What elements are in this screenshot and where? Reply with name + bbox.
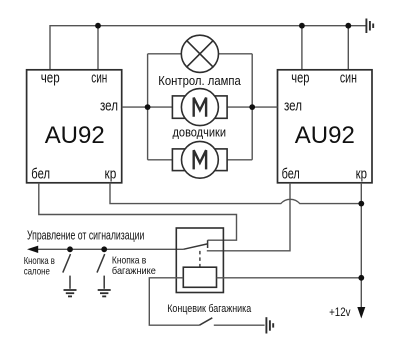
relay NO contact terminal bbox=[207, 240, 209, 248]
relay contact blade bbox=[183, 244, 207, 249]
switch SB1 Кнопка в салоне bbox=[63, 254, 71, 289]
node: coil / +12v rail junction bbox=[358, 275, 364, 281]
svg-text:син: син bbox=[340, 70, 357, 86]
svg-text:+12v: +12v bbox=[329, 307, 351, 319]
wire right vertical bus (lamp+motors) bbox=[251, 54, 253, 160]
switch SB3 Концевик багажника blade bbox=[199, 318, 212, 325]
svg-text:багажнике: багажнике bbox=[112, 265, 156, 277]
wire top bus (ground net) bbox=[50, 26, 366, 70]
ground (under SB1) bbox=[64, 290, 77, 296]
svg-text:AU92: AU92 bbox=[45, 122, 105, 149]
wire зел-left to lamp/motor bus bbox=[122, 106, 173, 108]
motor M2 (доводчик нижний) bbox=[172, 141, 227, 178]
arrow +12v bbox=[357, 307, 365, 319]
node: button 2 junction bbox=[101, 246, 107, 252]
wire lamp right lead bbox=[219, 53, 253, 55]
ground (trunk switch, right) bbox=[266, 317, 273, 333]
wire +12v rail (кр-right down) bbox=[360, 183, 362, 308]
relay actuation dashed link bbox=[199, 251, 201, 267]
svg-text:кр: кр bbox=[356, 167, 367, 183]
node: junction чер-right on top bus bbox=[299, 23, 305, 29]
svg-text:Управление от сигнализации: Управление от сигнализации bbox=[27, 228, 144, 243]
switch SB2 Кнопка в багажнике bbox=[97, 254, 105, 289]
svg-text:кр: кр bbox=[105, 167, 117, 183]
svg-text:бел: бел bbox=[31, 167, 50, 183]
node: кр-left / +12v rail junction bbox=[358, 201, 364, 207]
wire lamp left lead bbox=[148, 53, 182, 55]
node: junction син-right on top bus bbox=[345, 23, 351, 29]
wire чер-right pin to top bus bbox=[301, 26, 303, 70]
svg-text:доводчики: доводчики bbox=[173, 124, 227, 139]
svg-text:салоне: салоне bbox=[24, 265, 50, 277]
svg-text:чер: чер bbox=[41, 70, 60, 86]
svg-text:зел: зел bbox=[284, 98, 302, 114]
relay coil K1 bbox=[183, 267, 216, 287]
ground (top right chassis ground) bbox=[366, 19, 373, 34]
svg-text:бел: бел bbox=[282, 167, 300, 183]
wire control line (to alarm) bbox=[30, 248, 183, 250]
wire син-right pin to top bus bbox=[347, 26, 349, 70]
node: button 1 junction bbox=[67, 246, 73, 252]
module U2 AU92 (right) box bbox=[278, 70, 373, 183]
lamp HL1 (Контрол. лампа) bbox=[181, 35, 218, 72]
wire coil left to trunk switch bbox=[149, 278, 199, 325]
wire motor2 left lead bbox=[148, 159, 173, 161]
svg-text:чер: чер bbox=[291, 70, 309, 86]
motor M1 (доводчик верхний) bbox=[172, 89, 227, 126]
node: junction син-left on top bus bbox=[95, 23, 101, 29]
svg-text:зел: зел bbox=[100, 98, 118, 114]
wire left vertical bus (lamp+motors) bbox=[147, 54, 149, 160]
wire motor2 right lead bbox=[227, 159, 252, 161]
wire кр-left to +12v rail (with hop over бел-right) bbox=[110, 183, 361, 204]
svg-text:Контрол. лампа: Контрол. лампа bbox=[158, 73, 241, 88]
relay K1 enclosure bbox=[176, 228, 223, 293]
ground (under SB2) bbox=[98, 290, 111, 296]
svg-text:AU92: AU92 bbox=[295, 122, 355, 149]
wire coil right to +12v rail bbox=[217, 277, 362, 279]
wire trunk switch to ground bbox=[214, 324, 265, 326]
wire бел-left to relay NO contact bbox=[39, 183, 237, 240]
node: right bus / зел junction bbox=[249, 104, 255, 110]
svg-text:син: син bbox=[91, 70, 107, 86]
wire син-left pin to top bus bbox=[97, 26, 99, 70]
svg-text:Концевик багажника: Концевик багажника bbox=[167, 303, 252, 315]
module U1 AU92 (left) box bbox=[27, 70, 122, 183]
wire бел-right to relay NC contact bbox=[207, 183, 290, 251]
arrow to alarm bbox=[27, 246, 38, 253]
wire зел-right to lamp/motor bus bbox=[227, 106, 277, 108]
node: left bus / зел junction bbox=[145, 104, 151, 110]
